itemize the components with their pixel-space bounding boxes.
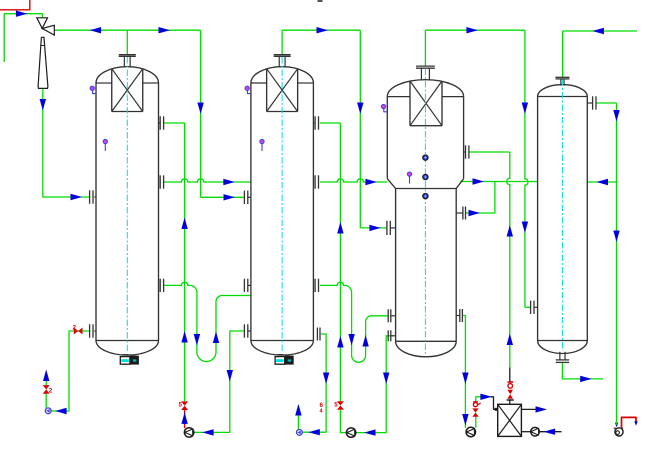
svg-text:5: 5 [179, 402, 183, 409]
svg-text:2: 2 [49, 388, 53, 395]
svg-text:2: 2 [73, 325, 77, 332]
svg-text:5: 5 [334, 402, 338, 409]
